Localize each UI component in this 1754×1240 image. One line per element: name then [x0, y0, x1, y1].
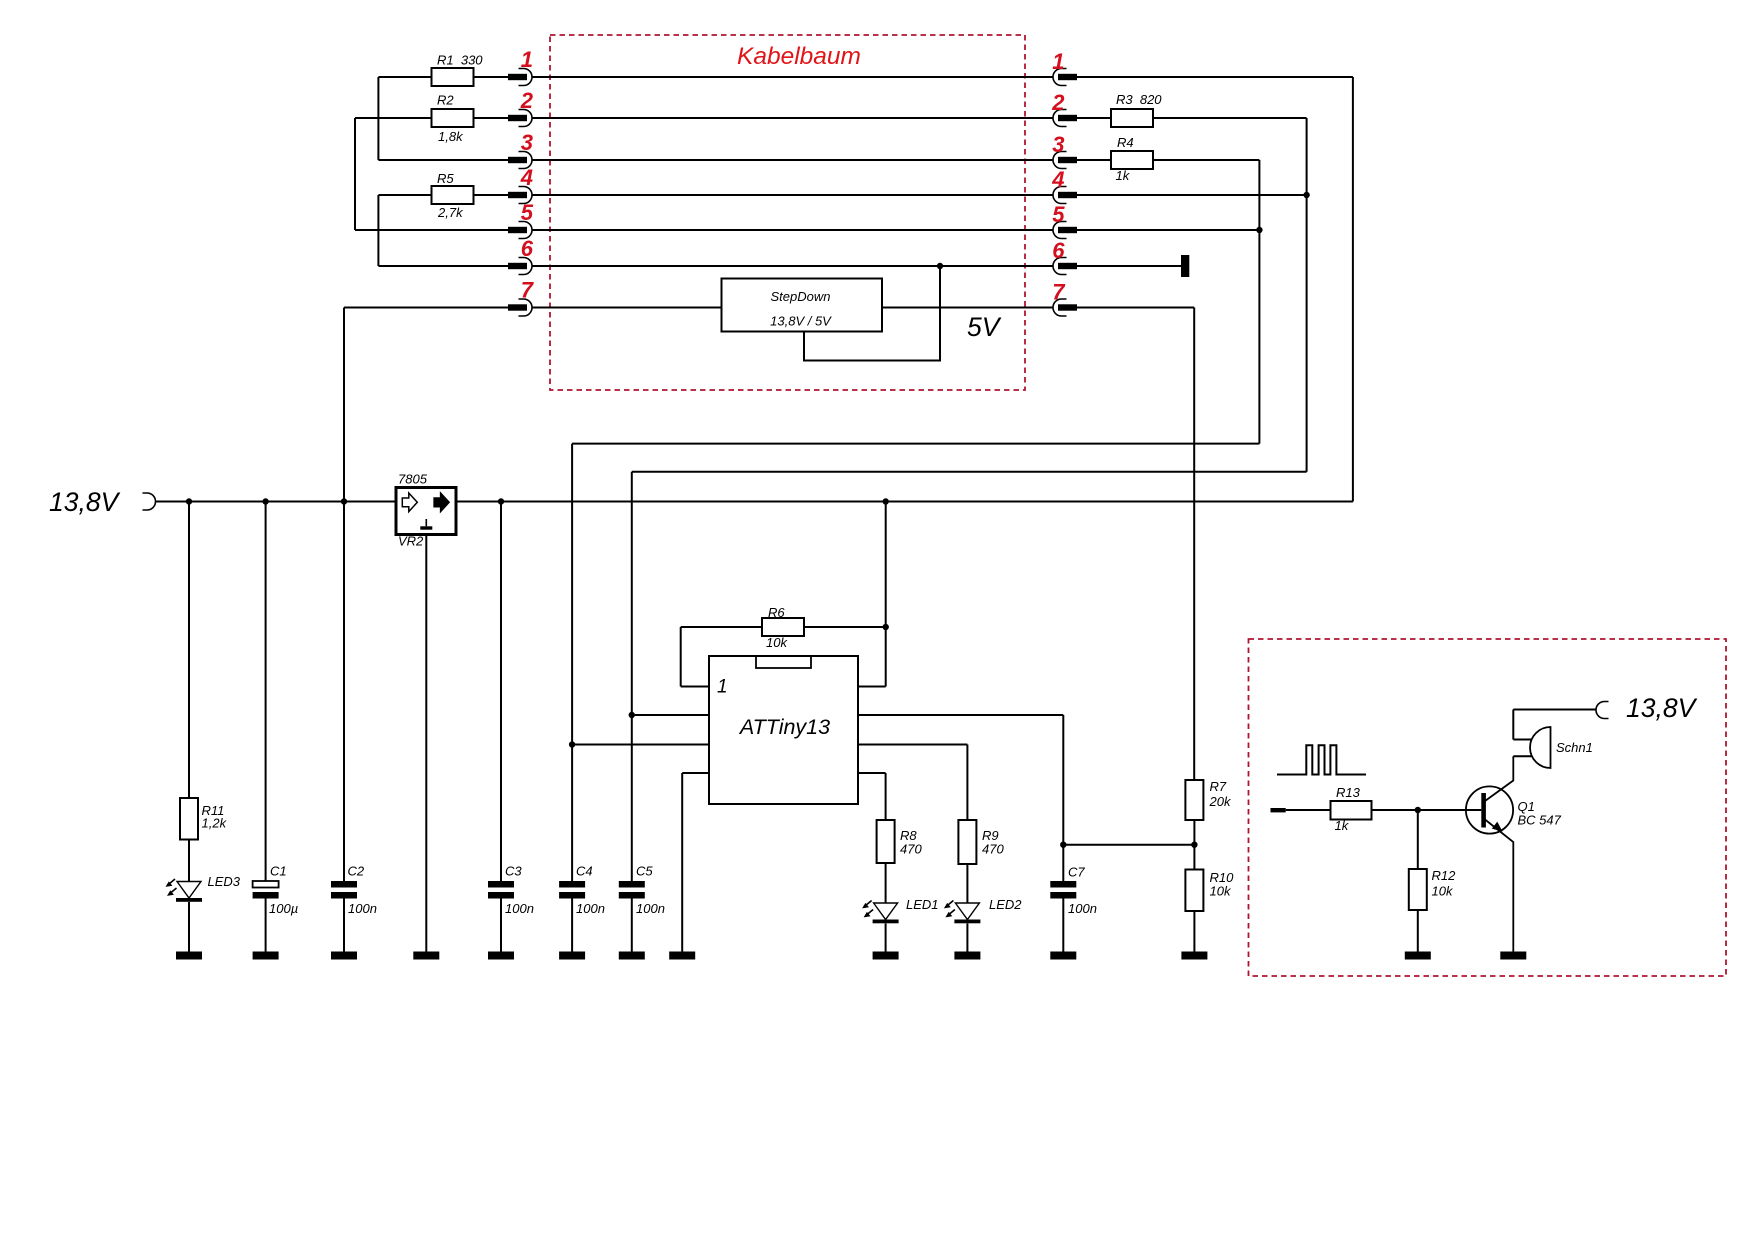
wire R5 right to pin 4: [474, 194, 509, 196]
svg-text:100n: 100n: [505, 901, 534, 916]
wire vertical R3 chain to C5: [631, 472, 633, 881]
input terminal stub: [1271, 808, 1286, 812]
svg-text:C5: C5: [636, 864, 653, 879]
transistor Q1 circle: [1466, 786, 1513, 833]
svg-text:R2: R2: [437, 93, 454, 108]
svg-text:6: 6: [521, 236, 534, 261]
wire R11 to LED3: [188, 840, 190, 882]
svg-text:5: 5: [1052, 202, 1065, 227]
wire R7 to node: [1193, 820, 1195, 845]
svg-text:R13: R13: [1336, 785, 1361, 800]
speaker Schn1 horn: [1530, 727, 1551, 768]
resistor R12: [1409, 869, 1427, 910]
junction rail R11 branch: [186, 498, 192, 504]
wire vertical pin7 to 13.8V rail: [343, 308, 345, 502]
svg-text:C1: C1: [270, 864, 287, 879]
wire rail to C1: [265, 502, 267, 882]
wire StepDown output down: [804, 266, 940, 361]
wire C3 to ground: [500, 899, 502, 952]
svg-text:BC 547: BC 547: [1518, 813, 1562, 828]
wire pin7 right to corner: [1077, 307, 1194, 309]
junction rail pin7/C2 branch: [341, 498, 347, 504]
svg-text:13,8V: 13,8V: [49, 487, 121, 517]
svg-text:3: 3: [1052, 132, 1064, 157]
svg-text:100n: 100n: [636, 901, 665, 916]
svg-text:10k: 10k: [1210, 884, 1232, 899]
wire R12 to ground: [1417, 910, 1419, 952]
ground VR2: [413, 952, 439, 960]
capacitor C2: [331, 881, 357, 899]
resistor R6: [762, 618, 804, 636]
junction rail ATTiny VCC branch: [883, 498, 889, 504]
wire R10 to ground: [1193, 911, 1195, 952]
wire harness line 7 left of StepDown: [532, 307, 722, 309]
wire VCC node down to ATTiny pin8: [885, 627, 887, 687]
connector pin 4 (left): contact bar and socket arc: [508, 187, 532, 204]
svg-text:R3 820: R3 820: [1116, 92, 1162, 107]
connector pin 1 (right): socket arc and contact bar: [1053, 69, 1077, 86]
connector pin 5 (left): contact bar and socket arc: [508, 222, 532, 239]
svg-text:R6: R6: [768, 605, 785, 620]
wire Q1 collector to 13.8V: [1512, 710, 1514, 740]
junction StepDown output on line 6: [937, 263, 943, 269]
wire to pin 7: [344, 307, 508, 309]
svg-text:C3: C3: [505, 864, 522, 879]
ground R10: [1181, 952, 1207, 960]
connector pin 3 (left): contact bar and socket arc: [508, 152, 532, 169]
wire to pin 5: [355, 229, 508, 231]
wire harness line 7 right of StepDown: [882, 307, 1053, 309]
terminator plug on pin 6 right: [1181, 255, 1189, 277]
wire R8 to LED1: [885, 863, 887, 903]
resistor R9: [958, 820, 976, 864]
wire C7 to ground: [1062, 899, 1064, 952]
svg-text:2: 2: [1051, 90, 1065, 115]
LED LED3: [166, 879, 203, 902]
wire to pin 3: [378, 159, 508, 161]
wire pin2 to R3: [1077, 117, 1111, 119]
ground Q1 emitter: [1500, 952, 1526, 960]
wire harness line 2: [532, 117, 1054, 119]
resistor R5: [432, 186, 474, 204]
ground LED1: [873, 952, 899, 960]
ground LED2: [954, 952, 980, 960]
svg-text:C7: C7: [1068, 865, 1085, 880]
wire ATTiny ground down: [681, 773, 683, 952]
junction C5 vertical with ATTiny pin: [629, 712, 635, 718]
capacitor C7: [1050, 881, 1076, 899]
wire vertical pin1 to 13.8V rail: [1352, 77, 1354, 502]
wire rail to C2: [343, 502, 345, 882]
resistor R7: [1185, 780, 1203, 820]
LED LED1: [862, 901, 899, 924]
wire vertical R3 chain: [1306, 118, 1308, 472]
svg-text:R7: R7: [1210, 779, 1227, 794]
ground C5: [619, 952, 645, 960]
junction C7 top node: [1060, 842, 1066, 848]
7805 output solid arrow: [434, 493, 449, 512]
svg-text:5V: 5V: [967, 312, 1002, 342]
ground LED3: [176, 952, 202, 960]
wire vertical R4 chain to C4: [571, 444, 573, 881]
wire 13.8V rail right of 7805: [456, 501, 1353, 503]
voltage regulator VR2 7805 box: [396, 488, 456, 535]
resistor R13: [1331, 801, 1372, 820]
svg-text:VR2: VR2: [398, 534, 424, 549]
svg-text:R4: R4: [1117, 135, 1134, 150]
svg-text:3: 3: [521, 130, 533, 155]
wire C7 node to R7/R10 node: [1063, 844, 1194, 846]
7805 input hollow arrow: [402, 493, 417, 512]
svg-text:R12: R12: [1432, 868, 1457, 883]
wire rail to C3: [500, 502, 502, 882]
wire vertical to C7 node: [1062, 715, 1064, 845]
capacitor C3: [488, 881, 514, 899]
wire C4 to ground: [571, 899, 573, 952]
right stage dashed boundary box: [1249, 639, 1727, 976]
svg-text:13,8V: 13,8V: [1626, 693, 1698, 723]
ground C7: [1050, 952, 1076, 960]
IC U1 ATTiny13 body: [709, 656, 858, 804]
svg-text:Schn1: Schn1: [1556, 740, 1593, 755]
wire C2 to ground: [343, 899, 345, 952]
junction R6 right with VCC vertical: [883, 624, 889, 630]
Q1 emitter arrow: [1492, 822, 1503, 832]
wire R1 right to pin 1: [474, 76, 509, 78]
svg-text:1: 1: [1052, 49, 1064, 74]
svg-text:LED1: LED1: [906, 897, 939, 912]
resistor R2: [432, 109, 474, 127]
wire ATTiny right pin to R8: [858, 772, 886, 774]
junction rail C3 branch: [498, 498, 504, 504]
Q1 collector lead: [1485, 756, 1513, 801]
speaker Schn1 leads: [1513, 740, 1532, 757]
svg-text:LED3: LED3: [208, 874, 241, 889]
wire vertical to R8: [885, 773, 887, 820]
wire 13.8V line: [1513, 709, 1596, 711]
wire to pin 6: [378, 265, 508, 267]
wire node to R12: [1417, 810, 1419, 869]
wire harness line 4: [532, 194, 1054, 196]
wire LED3 to ground: [188, 902, 190, 952]
ground C3: [488, 952, 514, 960]
wire vertical pin7 to R7: [1193, 308, 1195, 781]
wire R2 right to pin 2: [474, 117, 509, 119]
svg-text:2,7k: 2,7k: [437, 205, 464, 220]
svg-text:4: 4: [520, 165, 533, 190]
wire 13.8V rail left of 7805: [156, 501, 397, 503]
wire vertical R4 chain: [1258, 160, 1260, 444]
svg-text:R5: R5: [437, 171, 454, 186]
svg-text:1,2k: 1,2k: [202, 816, 228, 831]
Q1 base bar: [1481, 793, 1486, 828]
wire ATTiny left pin to C5/R3 node: [632, 714, 709, 716]
wire R1 left to vertical: [378, 76, 431, 78]
connector pin 6 (left): contact bar and socket arc: [508, 258, 532, 275]
ground C1: [253, 952, 279, 960]
svg-text:470: 470: [900, 842, 922, 857]
wire vertical R2 to pin5: [354, 118, 356, 230]
wire pin1 right to corner: [1077, 76, 1353, 78]
capacitor C5: [619, 881, 645, 899]
pulse waveform symbol: [1277, 745, 1366, 774]
wire pin5 to junction: [1077, 229, 1259, 231]
svg-text:7: 7: [521, 278, 535, 303]
wire LED1 to ground: [885, 924, 887, 952]
svg-text:7805: 7805: [398, 472, 428, 487]
wire harness line 6: [532, 265, 1054, 267]
wire pin4 to junction: [1077, 194, 1307, 196]
svg-text:R1 330: R1 330: [437, 53, 483, 68]
connector pin 7 (left): contact bar and socket arc: [508, 299, 532, 316]
StepDown converter module box: [722, 279, 883, 332]
resistor R4: [1111, 151, 1153, 169]
resistor R10: [1185, 870, 1203, 912]
junction C4 vertical with ATTiny pin: [569, 741, 575, 747]
svg-text:7: 7: [1052, 280, 1066, 305]
wire ATTiny pin1: [681, 686, 709, 688]
wire ATTiny pin8 (VCC): [858, 686, 886, 688]
wire pin6 right stub: [1077, 265, 1181, 267]
wire R3 right to corner: [1153, 117, 1307, 119]
capacitor C4: [559, 881, 585, 899]
wire R4 chain horizontal to ATTiny: [572, 443, 1259, 445]
connector pin 2 (left): contact bar and socket arc: [508, 110, 532, 127]
svg-text:1: 1: [521, 47, 533, 72]
wire node to R10: [1193, 845, 1195, 870]
wire C7 node down to C7: [1062, 845, 1064, 881]
7805 internal ground symbol: [420, 519, 432, 530]
ground R12: [1405, 952, 1431, 960]
LED LED2: [944, 901, 981, 924]
resistor R8: [877, 820, 895, 863]
wire C1 to ground: [265, 899, 267, 952]
wire R6 right lead: [805, 626, 886, 628]
wire ATTiny left pin to C4/R4 node: [572, 744, 709, 746]
input connector socket 13,8V: [143, 493, 156, 510]
wire harness line 1: [532, 76, 1054, 78]
wire LED2 to ground: [966, 924, 968, 952]
ATTiny13 notch: [756, 656, 811, 668]
Q1 emitter lead: [1485, 820, 1513, 952]
svg-text:1k: 1k: [1335, 818, 1350, 833]
svg-text:1: 1: [717, 677, 728, 698]
wire vertical pin1/R1 to pin3: [377, 77, 379, 160]
svg-text:100n: 100n: [348, 901, 377, 916]
svg-text:Kabelbaum: Kabelbaum: [737, 43, 861, 70]
wire VCC rail down to R6 node: [885, 502, 887, 628]
wire C5 to ground: [631, 899, 633, 952]
connector pin 3 (right): socket arc and contact bar: [1053, 152, 1077, 169]
wire pin3 to R4: [1077, 159, 1111, 161]
svg-text:100n: 100n: [1068, 901, 1097, 916]
svg-text:6: 6: [1052, 238, 1065, 263]
svg-text:StepDown: StepDown: [771, 289, 831, 304]
wire R9 to LED2: [966, 864, 968, 903]
wire rail to R11: [188, 502, 190, 799]
junction R12 tap on base wire: [1415, 807, 1421, 813]
wire vertical to R9: [966, 745, 968, 821]
svg-text:1,8k: 1,8k: [438, 129, 464, 144]
resistor R1: [432, 68, 474, 86]
junction pin4 on R3 chain: [1303, 192, 1309, 198]
junction pin5 on R4 chain: [1256, 227, 1262, 233]
connector pin 5 (right): socket arc and contact bar: [1053, 222, 1077, 239]
resistor R11: [180, 798, 198, 840]
wire VR2 ground down: [425, 535, 427, 952]
wire ATTiny ground pin: [682, 772, 709, 774]
capacitor C1 (polarized): [253, 881, 279, 899]
svg-text:LED2: LED2: [989, 897, 1022, 912]
wire stub to R13: [1286, 809, 1331, 811]
svg-text:ATTiny13: ATTiny13: [738, 715, 830, 739]
wire R13 to Q1 base: [1372, 809, 1482, 811]
Kabelbaum harness dashed boundary box: [550, 35, 1025, 390]
wire R2 left to vertical: [355, 117, 432, 119]
ground C2: [331, 952, 357, 960]
junction R7/R10 node: [1191, 842, 1197, 848]
wire ATTiny right pin to C7 node: [858, 714, 1063, 716]
svg-text:4: 4: [1051, 167, 1064, 192]
wire R3 chain horizontal to ATTiny: [632, 471, 1307, 473]
connector pin 6 (right): socket arc and contact bar: [1053, 258, 1077, 275]
svg-text:10k: 10k: [766, 635, 788, 650]
svg-text:13,8V / 5V: 13,8V / 5V: [770, 314, 832, 329]
connector pin 2 (right): socket arc and contact bar: [1053, 110, 1077, 127]
terminal socket 13,8V right: [1596, 702, 1609, 719]
wire ATTiny right pin to R9: [858, 744, 967, 746]
wire R4 right to corner: [1153, 159, 1259, 161]
wire R6 left lead: [681, 626, 762, 628]
wire harness line 3: [532, 159, 1054, 161]
svg-text:100µ: 100µ: [269, 901, 298, 916]
wire R6 left down to ATTiny pin1: [680, 627, 682, 687]
svg-text:470: 470: [982, 842, 1004, 857]
wire vertical R5 to pin6: [377, 195, 379, 266]
ground ATTiny: [669, 952, 695, 960]
svg-text:20k: 20k: [1209, 794, 1232, 809]
svg-text:5: 5: [521, 200, 534, 225]
wire harness line 5: [532, 229, 1054, 231]
junction rail C1 branch: [262, 498, 268, 504]
svg-text:C4: C4: [576, 864, 593, 879]
svg-text:1k: 1k: [1116, 168, 1131, 183]
wire R5 left to vertical: [378, 194, 431, 196]
svg-text:10k: 10k: [1432, 884, 1454, 899]
connector pin 7 (right): socket arc and contact bar: [1053, 299, 1077, 316]
svg-text:2: 2: [520, 88, 534, 113]
svg-text:C2: C2: [348, 864, 365, 879]
connector pin 4 (right): socket arc and contact bar: [1053, 187, 1077, 204]
svg-text:100n: 100n: [576, 901, 605, 916]
resistor R3: [1111, 109, 1153, 127]
ground C4: [559, 952, 585, 960]
connector pin 1 (left): contact bar and socket arc: [508, 69, 532, 86]
